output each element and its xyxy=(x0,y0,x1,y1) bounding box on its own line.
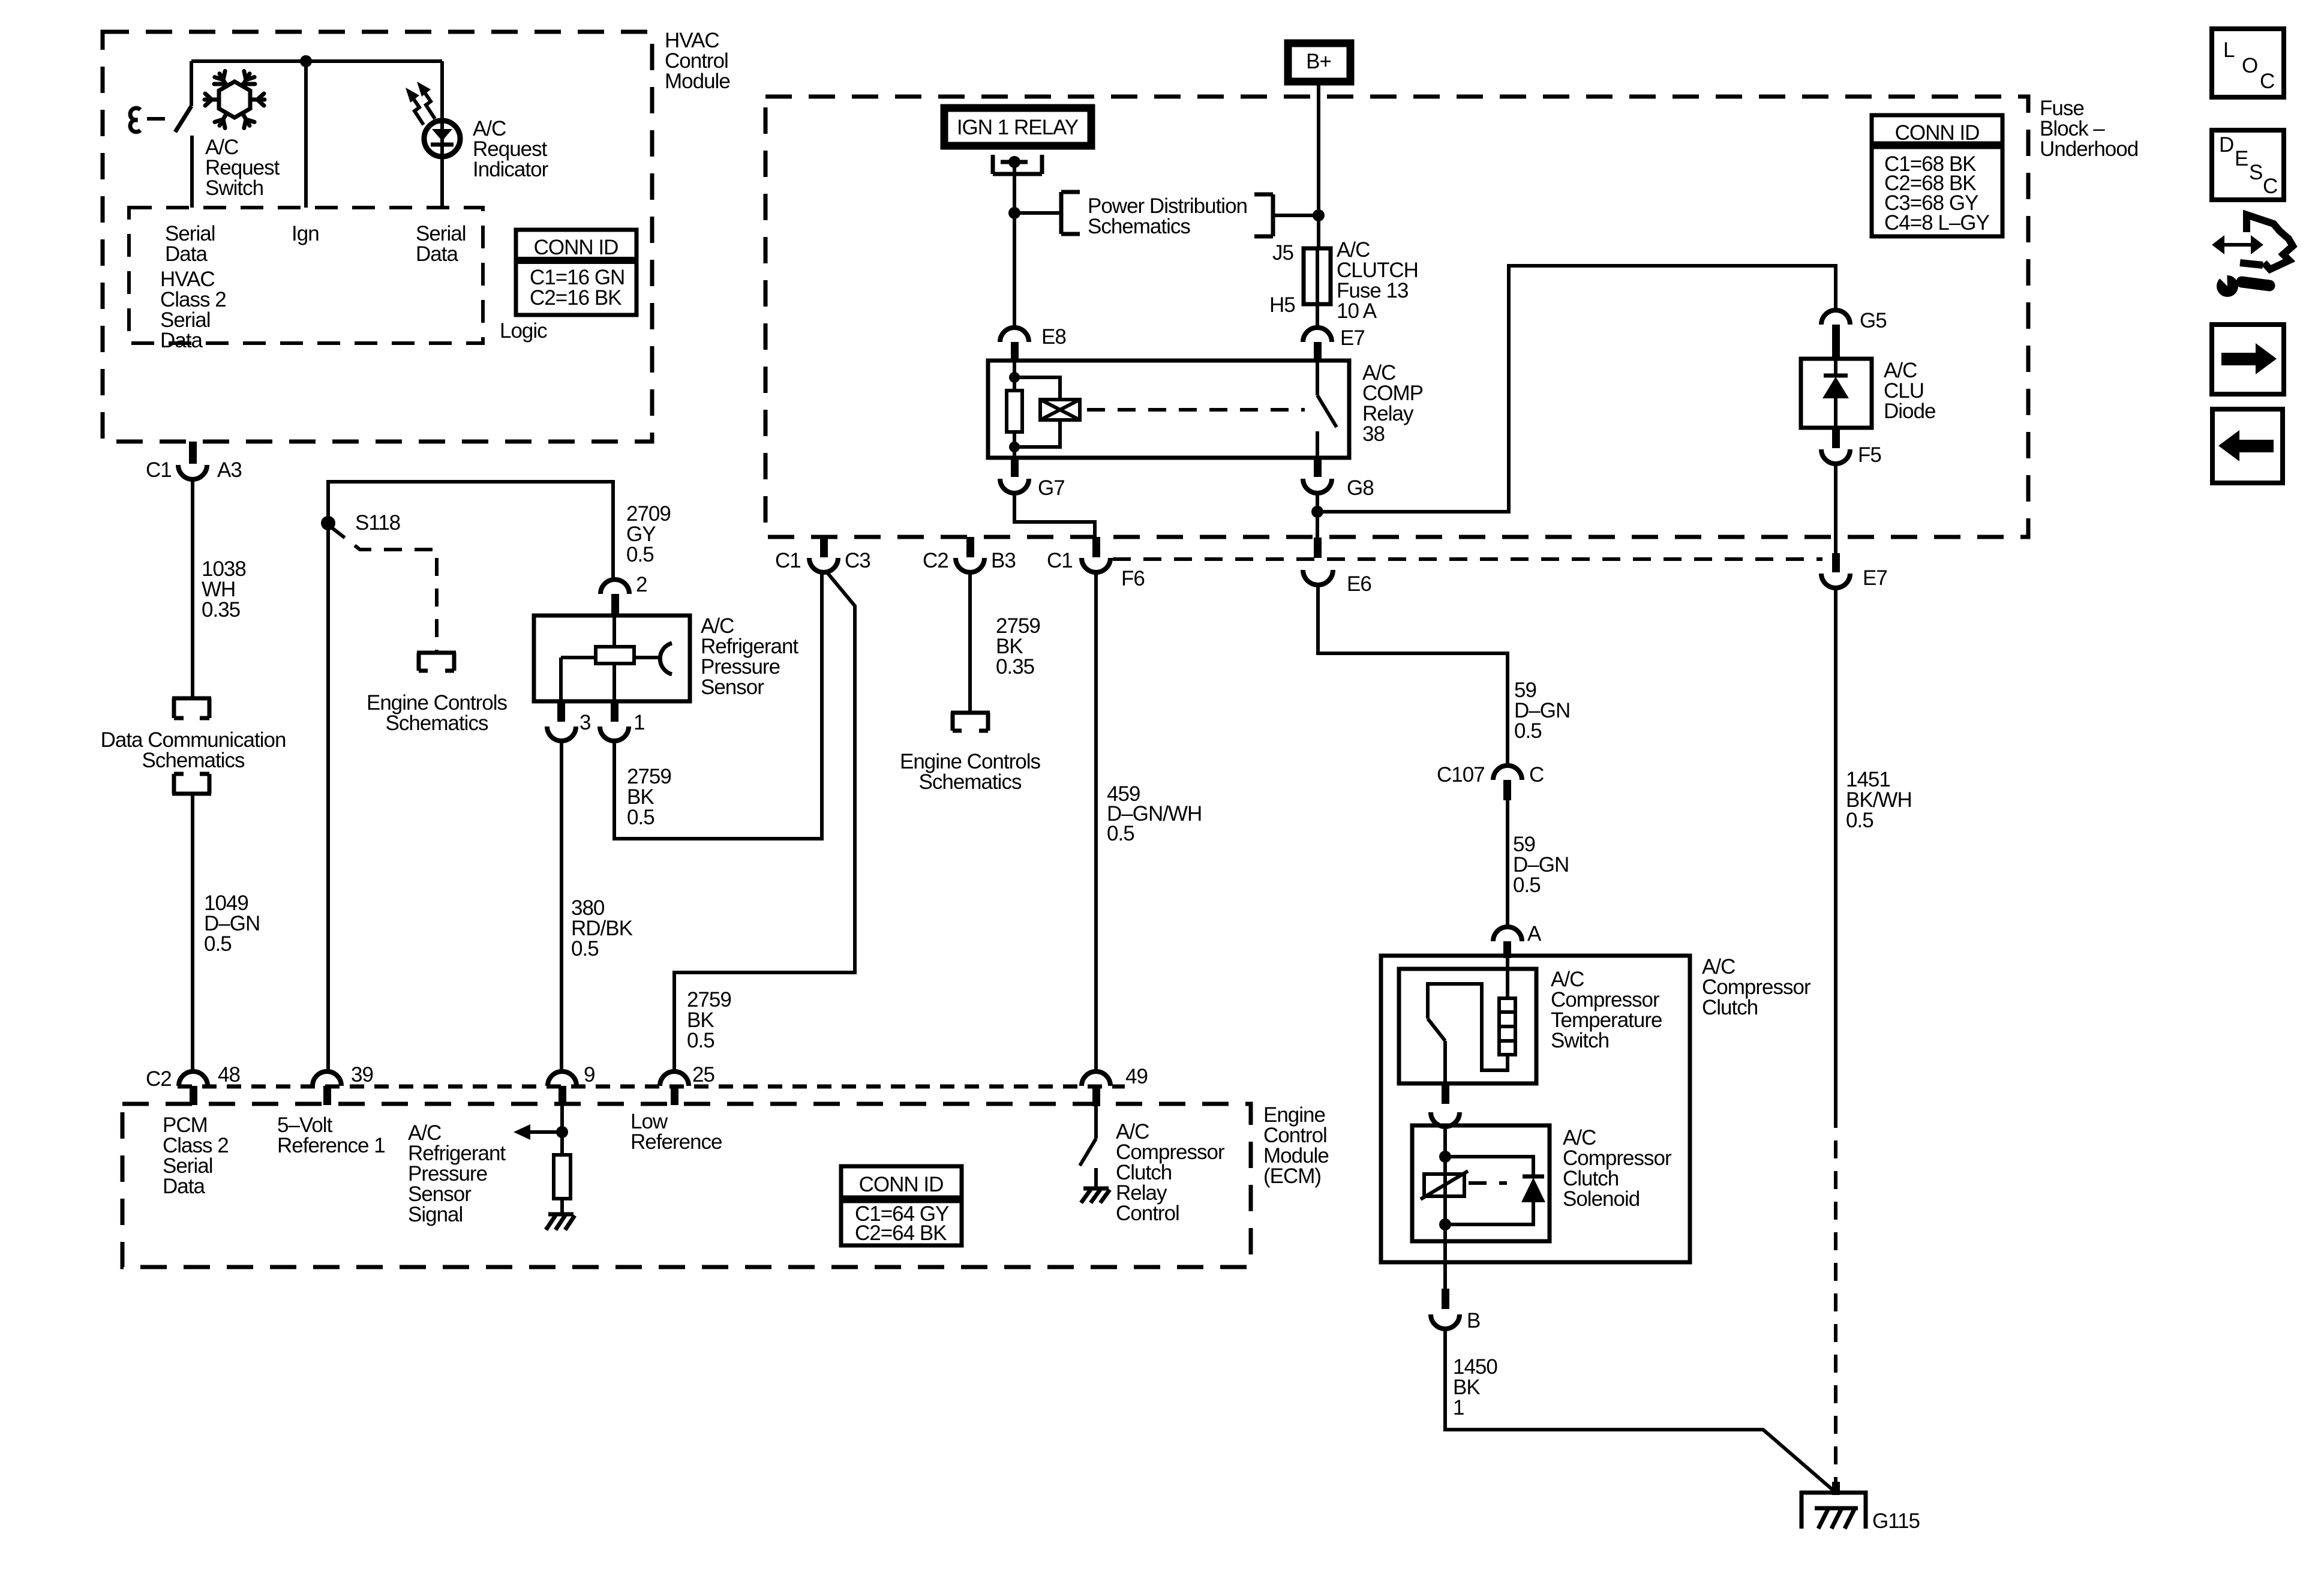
svg-text:3: 3 xyxy=(580,711,590,734)
connector E6 (fuse block bottom) xyxy=(1303,538,1371,596)
svg-text:F6: F6 xyxy=(1121,567,1145,590)
svg-text:Switch: Switch xyxy=(205,176,263,200)
connector A (compressor clutch) xyxy=(1493,922,1542,958)
A/C CLU Diode xyxy=(1801,359,1935,428)
net: 5-Volt Reference 1 xyxy=(277,1113,385,1157)
svg-text:B: B xyxy=(1467,1309,1480,1332)
wire 2759 BK 0.5 (sensor pin 1 up to C3) xyxy=(614,572,822,839)
switch actuator dashed linkage xyxy=(147,117,173,121)
A/C COMP Relay 38 xyxy=(988,361,1423,458)
svg-text:G115: G115 xyxy=(1872,1509,1920,1533)
node: Serial Data (switch side) xyxy=(165,222,215,266)
net: A/C Compressor Clutch Relay Control xyxy=(1116,1120,1225,1225)
junction on ignition feed xyxy=(1008,207,1020,219)
connector C107 pin C xyxy=(1437,763,1544,800)
svg-text:0.5: 0.5 xyxy=(1514,719,1542,743)
svg-text:Ign: Ign xyxy=(292,222,319,245)
connector G5 (diode) xyxy=(1821,309,1887,359)
svg-text:Reference: Reference xyxy=(630,1130,722,1154)
svg-text:CONN ID: CONN ID xyxy=(859,1173,944,1196)
svg-text:C2: C2 xyxy=(923,549,948,572)
connector G7 (relay) xyxy=(1000,458,1065,500)
svg-text:(ECM): (ECM) xyxy=(1263,1164,1321,1188)
svg-text:B3: B3 xyxy=(991,549,1016,572)
connector C2/B3 (fuse block underhood) xyxy=(923,537,1016,572)
svg-text:39: 39 xyxy=(351,1063,373,1086)
svg-text:G5: G5 xyxy=(1860,309,1887,332)
svg-text:G8: G8 xyxy=(1347,476,1374,500)
svg-text:0.5: 0.5 xyxy=(571,937,599,960)
LED emission arrows xyxy=(406,82,435,125)
net: PCM Class 2 Serial Data xyxy=(163,1113,229,1198)
svg-text:E7: E7 xyxy=(1340,326,1365,350)
svg-text:C2=16 BK: C2=16 BK xyxy=(530,286,621,310)
junction: Ign tap on top bus xyxy=(300,55,312,67)
svg-text:C4=8 L–GY: C4=8 L–GY xyxy=(1884,211,1990,235)
svg-text:S118: S118 xyxy=(355,511,400,535)
icon: back arrow box xyxy=(2212,409,2283,483)
splice S118 xyxy=(321,511,400,535)
connector E8 (relay) xyxy=(1000,325,1066,361)
connector C1 pin A3 (HVAC module) xyxy=(146,442,242,482)
svg-text:9: 9 xyxy=(584,1063,594,1086)
wire 1450 BK 1 to ground xyxy=(1445,1329,1834,1491)
A/C Compressor Clutch Solenoid xyxy=(1412,1125,1672,1262)
svg-text:Data: Data xyxy=(416,242,458,266)
svg-text:Sensor: Sensor xyxy=(701,676,764,699)
svg-text:E8: E8 xyxy=(1041,325,1066,349)
dashed branch from S118 to Engine Controls Schematics xyxy=(331,527,437,651)
ground (ECM pin 9 internal) xyxy=(546,1214,575,1230)
svg-text:Reference 1: Reference 1 xyxy=(277,1134,385,1157)
CONN ID table (HVAC: C1=16 GN / C2=16 BK) xyxy=(516,230,636,315)
connector G8 (relay) xyxy=(1303,458,1374,500)
CONN ID table (fuse block) xyxy=(1872,115,2002,236)
svg-text:S: S xyxy=(2249,161,2262,184)
icon: DESC box xyxy=(2212,130,2284,200)
svg-text:C2=64 BK: C2=64 BK xyxy=(855,1221,947,1245)
svg-text:0.5: 0.5 xyxy=(204,932,232,956)
wire 1038 WH 0.35 xyxy=(193,478,246,698)
svg-text:C107: C107 xyxy=(1437,763,1485,786)
svg-text:Indicator: Indicator xyxy=(473,158,549,181)
connector F5 (diode) xyxy=(1821,428,1881,467)
off-page link: Data Communication Schematics xyxy=(101,698,286,794)
junction on B+ wire xyxy=(1313,209,1325,221)
wire: B+ feed down to fuse xyxy=(1317,85,1320,248)
svg-text:E6: E6 xyxy=(1347,572,1371,596)
wire: fuse to E7 xyxy=(1316,304,1319,329)
IGN 1 RELAY node box xyxy=(944,108,1091,146)
internal dashed wire F6 to E7 (fuse block) xyxy=(1113,557,1822,561)
wire: F5 down to E7 xyxy=(1834,464,1837,553)
svg-text:C2: C2 xyxy=(146,1067,172,1091)
connector E7 (relay) xyxy=(1303,326,1365,361)
svg-text:0.5: 0.5 xyxy=(1107,822,1134,845)
svg-text:G7: G7 xyxy=(1038,476,1065,500)
ECM pin 39 xyxy=(313,1063,373,1105)
svg-text:E7: E7 xyxy=(1863,566,1887,590)
svg-text:1: 1 xyxy=(633,711,644,734)
ECM pin 25 xyxy=(660,1063,714,1105)
svg-text:25: 25 xyxy=(692,1063,714,1086)
svg-text:0.5: 0.5 xyxy=(687,1029,714,1052)
svg-text:O: O xyxy=(2242,54,2257,77)
wire: G7 to F6 (fuse block internal) xyxy=(1014,493,1095,537)
svg-text:38: 38 xyxy=(1362,422,1385,446)
wire 459 D-GN/WH 0.5 (F6 to ECM pin 49) xyxy=(1096,572,1202,1073)
A/C Refrigerant Pressure Sensor xyxy=(534,614,798,701)
svg-text:Data: Data xyxy=(163,1175,205,1198)
Logic dashed box xyxy=(129,208,547,343)
svg-text:IGN 1 RELAY: IGN 1 RELAY xyxy=(957,116,1079,139)
icon: LOC box xyxy=(2212,29,2284,97)
wire 2709 GY 0.5 (to sensor pin 2) xyxy=(626,502,671,566)
wire 59 D-GN 0.5 (lower) xyxy=(1508,800,1569,927)
svg-text:Schematics: Schematics xyxy=(142,749,245,772)
svg-text:C1: C1 xyxy=(146,458,172,482)
svg-text:Solenoid: Solenoid xyxy=(1563,1187,1640,1211)
wire 2759 BK 0.5 (C3 to ECM pin 25 low reference) xyxy=(674,571,855,1073)
off-page bracket pair: Power Distribution Schematics xyxy=(1014,192,1319,238)
A/C Request Indicator LED xyxy=(424,61,549,208)
svg-text:Underhood: Underhood xyxy=(2040,137,2138,161)
wire: E6 down to C107 xyxy=(1318,584,1508,766)
snowflake icon xyxy=(205,71,265,129)
svg-text:Schematics: Schematics xyxy=(1088,215,1190,238)
wire 2759 BK 0.35 xyxy=(970,572,1040,712)
wire 1451 BK/WH 0.5 xyxy=(1836,588,1912,1482)
svg-text:Clutch: Clutch xyxy=(1702,996,1758,1019)
svg-text:B+: B+ xyxy=(1306,50,1331,73)
Fuse Block - Underhood dashed box xyxy=(765,97,2138,537)
connector pin 1 (sensor) xyxy=(600,701,644,741)
net: Low Reference xyxy=(630,1110,722,1154)
svg-text:C1: C1 xyxy=(1047,549,1073,572)
svg-text:Schematics: Schematics xyxy=(919,770,1022,794)
wire 380 RD/BK 0.5 (sensor signal) xyxy=(562,740,633,1073)
connector C1/C3 (fuse block underhood) xyxy=(775,537,870,572)
fuse J5/H5: A/C CLUTCH Fuse 13 10 A xyxy=(1269,238,1418,323)
svg-text:10 A: 10 A xyxy=(1337,299,1377,323)
connector (temp switch to solenoid) xyxy=(1431,1083,1460,1127)
svg-text:Diode: Diode xyxy=(1884,400,1935,423)
ECM pin 49 xyxy=(1082,1065,1148,1106)
svg-text:0.5: 0.5 xyxy=(1846,809,1873,832)
off-page link: Engine Controls Schematics (S118) xyxy=(367,653,508,735)
svg-text:Module: Module xyxy=(665,70,730,93)
wire: clutch box to connector B xyxy=(1443,1262,1447,1290)
B+ node box xyxy=(1288,43,1350,82)
wire: ignition feed down to relay E8 xyxy=(1013,162,1016,328)
ECM connector row line xyxy=(178,1085,1125,1089)
svg-text:Schematics: Schematics xyxy=(386,712,488,735)
svg-text:Switch: Switch xyxy=(1551,1029,1609,1052)
svg-text:E: E xyxy=(2235,147,2248,170)
svg-text:0.35: 0.35 xyxy=(202,598,240,622)
ground (ECM pin 49 internal) xyxy=(1081,1188,1110,1203)
svg-text:2: 2 xyxy=(636,573,647,596)
icon: repair navigation (arrow and wrench) xyxy=(2212,215,2293,297)
svg-text:D: D xyxy=(2219,133,2233,157)
ground G115 xyxy=(1801,1482,1920,1533)
svg-text:A: A xyxy=(1527,922,1542,945)
svg-text:C: C xyxy=(1529,763,1544,786)
net: HVAC Class 2 Serial Data xyxy=(160,268,226,352)
svg-text:C1: C1 xyxy=(775,549,801,572)
connector C1/F6 (fuse block underhood) xyxy=(1047,537,1145,590)
svg-text:Data: Data xyxy=(165,242,208,266)
Engine Control Module (ECM) dashed box xyxy=(122,1103,1329,1267)
wire: 5V reference feed, S118 branch trunk xyxy=(328,482,613,1073)
switch actuator hook xyxy=(130,108,140,132)
svg-text:C3: C3 xyxy=(845,549,870,572)
A/C Request Switch xyxy=(175,61,280,208)
svg-text:48: 48 xyxy=(218,1063,240,1086)
svg-text:Signal: Signal xyxy=(408,1203,463,1226)
svg-text:Logic: Logic xyxy=(500,319,547,343)
svg-text:A3: A3 xyxy=(217,458,242,482)
wire 1049 D-GN 0.5 xyxy=(193,794,260,1073)
CONN ID table (ECM: C1=64 GY / C2=64 BK) xyxy=(841,1166,962,1245)
A/C Compressor Temperature Switch xyxy=(1399,958,1662,1083)
svg-text:49: 49 xyxy=(1125,1065,1148,1088)
icon: forward arrow box xyxy=(2212,325,2284,394)
svg-text:C: C xyxy=(2263,175,2277,198)
wire 59 D-GN 0.5 (upper) xyxy=(1514,679,1570,743)
svg-text:0.35: 0.35 xyxy=(996,655,1034,679)
svg-text:CONN ID: CONN ID xyxy=(534,236,618,259)
ECM pin 48 (connector C2) xyxy=(146,1063,240,1105)
svg-text:CONN ID: CONN ID xyxy=(1895,121,1980,145)
svg-text:0.5: 0.5 xyxy=(627,806,654,829)
svg-text:0.5: 0.5 xyxy=(626,543,654,566)
svg-text:0.5: 0.5 xyxy=(1513,873,1541,897)
net: A/C Refrigerant Pressure Sensor Signal xyxy=(408,1121,506,1226)
node: Serial Data (indicator side) xyxy=(416,222,466,266)
connector E7 (fuse block bottom right) xyxy=(1821,553,1887,590)
ECM pin 9 xyxy=(548,1063,594,1105)
svg-text:1: 1 xyxy=(1453,1396,1464,1419)
svg-text:J5: J5 xyxy=(1272,241,1293,265)
off-page link: Engine Controls Schematics (B3) xyxy=(900,713,1041,794)
IGN 1 relay output terminal xyxy=(993,155,1042,174)
svg-text:Data: Data xyxy=(160,329,203,352)
svg-text:C: C xyxy=(2260,70,2274,93)
HVAC Control Module dashed box xyxy=(103,29,730,442)
connector pin 3 (sensor) xyxy=(547,701,590,741)
wire: G8 output, junction to diode feed xyxy=(1316,493,1319,538)
svg-text:H5: H5 xyxy=(1269,293,1295,317)
wire: top bus from switch to indicator xyxy=(191,59,442,63)
A/C Compressor Clutch box xyxy=(1381,955,1811,1262)
svg-text:L: L xyxy=(2223,38,2235,62)
svg-text:F5: F5 xyxy=(1858,443,1881,467)
ECM pin 9 internal: arrow, resistor, ground xyxy=(514,1105,571,1214)
svg-text:Control: Control xyxy=(1116,1202,1179,1225)
ECM pin 49 internal: driver switch and ground xyxy=(1080,1106,1096,1187)
connector B (compressor clutch) xyxy=(1431,1289,1480,1332)
connector pin 2 (pressure sensor) xyxy=(600,573,647,616)
wire: Ign feed down to logic xyxy=(304,61,308,208)
